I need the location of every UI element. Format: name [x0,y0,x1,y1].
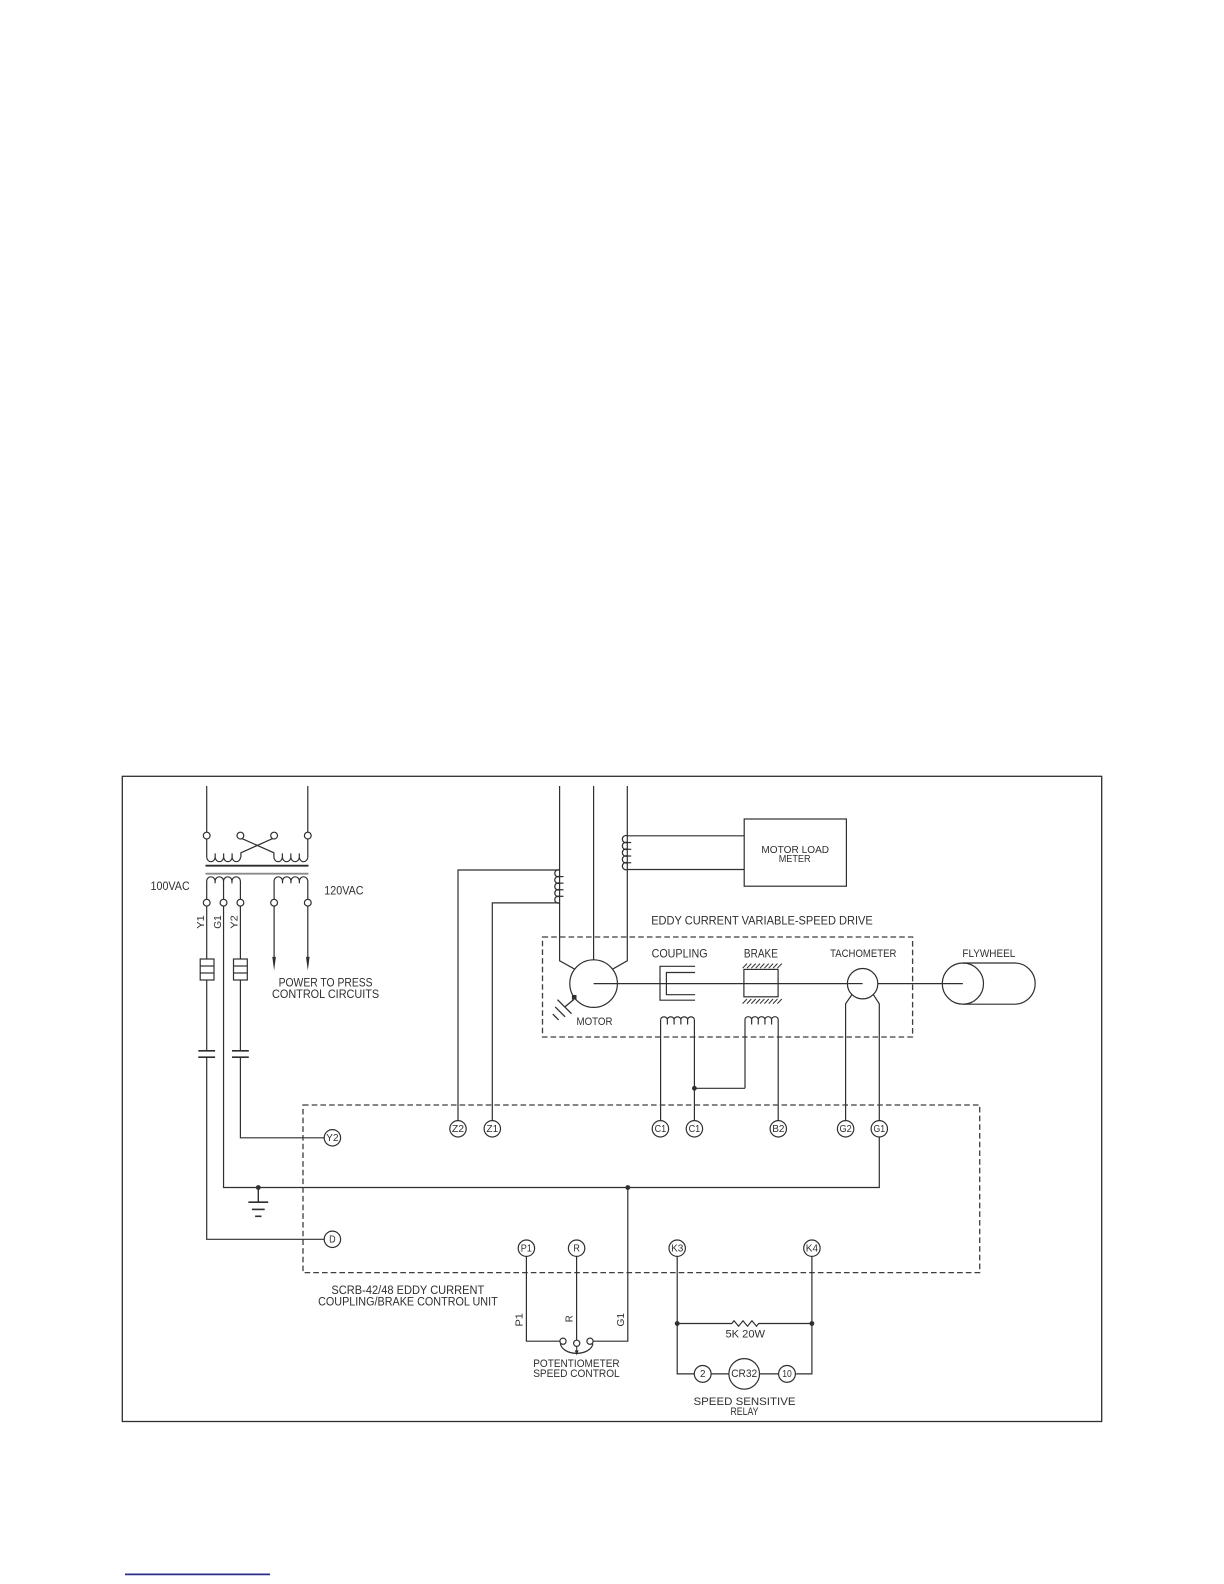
wire motor feed B [593,786,595,960]
wire 120VAC right arrow [307,906,309,957]
coupling clevis symbol [660,966,695,1000]
relay pin 10 circle [779,1366,796,1383]
capacitor on Y2 [232,1050,249,1052]
wire meter tap top [627,835,744,837]
eddy current drive dashed enclosure [543,937,913,1037]
svg-text:Z1: Z1 [487,1124,499,1135]
wire K3 down [677,1256,694,1374]
svg-text:D: D [329,1235,336,1246]
svg-text:100VAC: 100VAC [151,879,190,893]
wire coupling coil left leg to C1 [660,1020,662,1121]
svg-text:FLYWHEEL: FLYWHEEL [962,948,1015,960]
capacitor on Y1 [198,1050,215,1052]
svg-text:120VAC: 120VAC [324,883,363,897]
terminal C1 first [652,1121,668,1137]
svg-text:10: 10 [782,1369,792,1380]
shaft tachometer to flywheel [878,983,963,985]
wire Y1 to terminal D [207,1058,325,1239]
terminal Z2 [450,1121,466,1137]
wire motor feed C [612,786,628,970]
terminal Z1 [484,1121,500,1137]
svg-text:5K 20W: 5K 20W [726,1328,766,1340]
wire 120VAC left arrow [273,906,275,957]
junction ground tap [256,1185,261,1190]
coupling coil [661,1017,695,1020]
svg-text:G2: G2 [840,1124,853,1135]
svg-text:2: 2 [700,1369,706,1380]
terminal Y2 [324,1130,340,1146]
wire R to potentiometer wiper [576,1256,578,1340]
terminal R [568,1240,584,1256]
terminal K4 [804,1240,820,1256]
wire Y2 column upper [239,906,241,959]
svg-text:CR32: CR32 [731,1368,757,1380]
wire brake coil left leg [744,1020,746,1089]
wire primary feed left [206,786,208,832]
current transformer coil to meter [622,836,627,870]
relay coil CR32 [729,1359,760,1390]
junction K3 resistor [675,1321,680,1326]
transformer T1 primary winding left [207,857,241,861]
wire potentiometer to G1 net [593,1188,628,1342]
fuse F1 on Y1 [200,959,214,980]
earth ground symbol [257,1188,259,1202]
transformer T1 core [206,865,309,867]
wire Y2 to terminal Y2 [240,1058,324,1138]
svg-text:Y2: Y2 [230,915,241,929]
wire Y1 column mid [206,980,208,1050]
wire tachometer to G1 [873,995,879,1121]
svg-text:SCRB-42/48 EDDY CURRENT: SCRB-42/48 EDDY CURRENT [331,1285,484,1297]
transformer T1 primary winding right [274,857,308,861]
svg-text:Y1: Y1 [196,915,207,929]
wire tie to brake coil [694,1087,745,1089]
terminal P1 [518,1240,534,1256]
wire tachometer to G2 [846,995,852,1121]
brake coil [745,1017,778,1020]
svg-text:SPEED CONTROL: SPEED CONTROL [533,1368,620,1380]
junction G1 to potentiometer [625,1185,630,1190]
svg-text:G1: G1 [616,1313,627,1327]
wire P1 to potentiometer [526,1256,560,1341]
shaft motor to tachometer [594,983,863,985]
svg-text:METER: METER [779,854,811,865]
transformer secondary terminal circles [203,899,210,906]
svg-text:K3: K3 [671,1244,684,1255]
wire Y2 column mid [239,980,241,1050]
svg-text:C1: C1 [655,1124,667,1135]
shaft stub inside tachometer [847,983,862,985]
svg-text:CONTROL CIRCUITS: CONTROL CIRCUITS [272,987,379,1001]
terminal C1 second [686,1121,702,1137]
svg-text:COUPLING/BRAKE CONTROL UNIT: COUPLING/BRAKE CONTROL UNIT [318,1297,498,1309]
svg-text:G1: G1 [874,1124,886,1135]
transformer T1 primary terminal circles [203,832,210,839]
terminal G1 [871,1121,887,1137]
svg-text:BRAKE: BRAKE [744,946,778,960]
terminal G2 [837,1121,853,1137]
svg-text:EDDY CURRENT VARIABLE-SPEED DR: EDDY CURRENT VARIABLE-SPEED DRIVE [651,913,873,927]
potentiometer wiper arrow [576,1346,578,1350]
svg-text:G1: G1 [213,915,224,929]
brake block symbol [744,969,778,996]
relay pin 2 circle [694,1366,711,1383]
svg-text:B2: B2 [772,1124,785,1135]
svg-text:K4: K4 [806,1244,819,1255]
potentiometer terminal circles [560,1338,566,1344]
wire coupling coil right leg to C1 [693,1020,695,1121]
chassis ground on motor frame [572,995,577,1000]
transformer T1 secondary winding 100VAC with center tap [207,877,241,881]
tachometer circle [847,969,877,999]
fuse F2 on Y2 [234,959,248,980]
wire meter tap bottom [627,869,744,871]
footer link line [125,1573,270,1575]
wire crossover primary taps [242,838,274,857]
wire Z1 tap [492,903,559,1121]
terminal B2 [770,1121,786,1137]
potentiometer resistive arc [560,1344,593,1354]
wire relay coil row right [760,1373,779,1375]
flywheel cylinder [963,963,1035,1004]
wire Y1 column upper [206,906,208,959]
wire G1 column to G1 terminal long run [224,906,880,1187]
motor load meter box [744,819,846,886]
wire brake coil right leg to B2 [777,1020,779,1121]
svg-text:TACHOMETER: TACHOMETER [830,948,896,960]
current transformer coil to Z terminals [555,870,560,903]
svg-text:P1: P1 [521,1244,533,1255]
resistor 5K 20W [677,1321,812,1326]
terminal D [324,1231,340,1247]
motor M circle [570,960,618,1008]
transformer T1 secondary winding 120VAC [274,877,308,881]
svg-text:RELAY: RELAY [731,1406,760,1418]
terminal K3 [669,1240,685,1256]
junction coupling-brake tie [692,1086,697,1091]
wire relay coil row left [711,1373,729,1375]
drawing outer border [122,776,1101,1421]
wire primary feed right [307,786,309,832]
svg-text:R: R [564,1315,575,1322]
svg-text:Y2: Y2 [326,1133,339,1144]
SCRB control unit dashed enclosure [303,1105,980,1273]
svg-text:P1: P1 [515,1313,526,1327]
wire motor feed A [560,786,576,970]
svg-text:R: R [573,1244,580,1255]
junction K4 resistor [810,1321,815,1326]
wire K4 down [795,1256,812,1374]
svg-text:MOTOR: MOTOR [577,1016,613,1028]
wire Z2 tap [458,870,560,1121]
brake hatching top [743,964,782,969]
svg-text:Z2: Z2 [452,1124,465,1135]
svg-text:C1: C1 [689,1124,701,1135]
svg-text:COUPLING: COUPLING [652,946,708,960]
brake hatching bottom [743,999,782,1004]
